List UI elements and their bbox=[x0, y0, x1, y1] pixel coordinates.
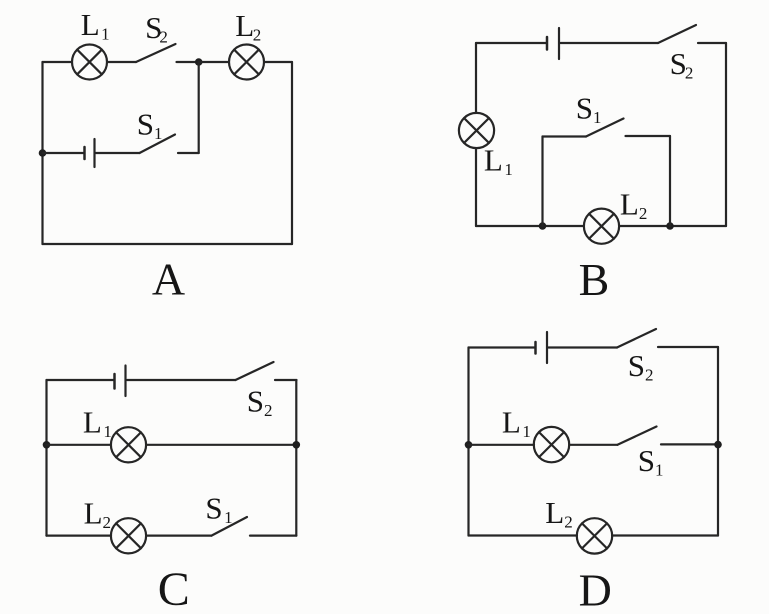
wire: A top rail right segment bbox=[264, 61, 292, 63]
wire: A top rail left segment bbox=[43, 61, 73, 63]
wire: D top rail, battery to S2 bbox=[549, 346, 618, 348]
battery (circuit D) long plate bbox=[546, 332, 548, 363]
battery (circuit A) long plate bbox=[93, 139, 95, 167]
lamp L1 (circuit B) bbox=[459, 113, 494, 148]
switch S2 (circuit D) fixed contact bbox=[658, 346, 718, 348]
wire: D bottom rail left segment bbox=[469, 534, 578, 536]
node: C middle rail left dot bbox=[43, 441, 51, 449]
svg-text:S2: S2 bbox=[670, 46, 694, 83]
node: A top junction dot bbox=[195, 58, 203, 66]
svg-text:B: B bbox=[579, 254, 610, 305]
switch S1 (circuit D) fixed contact bbox=[661, 443, 718, 445]
lamp L1 (circuit C) bbox=[111, 427, 146, 462]
switch S1 (circuit B) fixed contact bbox=[626, 135, 671, 137]
switch S2 (circuit D) lever bbox=[617, 329, 656, 348]
node: B bottom right junction dot bbox=[666, 222, 674, 230]
svg-text:L2: L2 bbox=[84, 496, 111, 533]
svg-text:L1: L1 bbox=[83, 405, 112, 442]
wire: B top rail left segment bbox=[476, 42, 546, 44]
lamp L1 (circuit D) bbox=[534, 427, 569, 462]
wire: C bottom rail left segment bbox=[47, 534, 112, 536]
wire: A middle branch, battery to S1 bbox=[96, 152, 140, 154]
wire: A middle branch, node to battery bbox=[43, 152, 84, 154]
svg-text:L1: L1 bbox=[502, 405, 531, 442]
wire: C left vertical bbox=[45, 380, 47, 536]
wire: B bottom rail right segment bbox=[619, 225, 726, 227]
wire: C top rail, battery to S2 bbox=[127, 379, 236, 381]
wire: C right vertical bbox=[295, 380, 297, 536]
wire: B inner branch left vertical bbox=[541, 137, 543, 227]
switch S2 (circuit C) lever bbox=[236, 362, 274, 380]
wire: D bottom rail right segment bbox=[612, 534, 718, 536]
wire: A vertical from S1 up to junction bbox=[198, 62, 200, 153]
lamp L2 (circuit A) bbox=[229, 45, 264, 80]
svg-text:L1: L1 bbox=[484, 143, 513, 180]
wire: B inner branch top segment bbox=[543, 135, 587, 137]
wire: B inner branch right vertical bbox=[669, 136, 671, 226]
switch S2 (circuit C) fixed contact bbox=[275, 379, 297, 381]
svg-text:L1: L1 bbox=[81, 7, 110, 44]
switch S1 (circuit D) lever bbox=[618, 427, 657, 445]
switch S1 (circuit B) lever bbox=[586, 119, 624, 137]
lamp L2 (circuit D) bbox=[577, 518, 612, 553]
wire: D middle rail left segment bbox=[469, 444, 535, 446]
wire: A top rail, junction to L2 bbox=[199, 61, 229, 63]
switch S2 (circuit B) fixed contact bbox=[698, 42, 726, 44]
battery (circuit C) short plate bbox=[113, 374, 116, 389]
wire: A right vertical bbox=[291, 62, 293, 244]
battery (circuit B) long plate bbox=[558, 28, 560, 59]
svg-text:S2: S2 bbox=[145, 10, 168, 47]
wire: B bottom rail left segment bbox=[476, 225, 584, 227]
svg-text:L2: L2 bbox=[545, 495, 572, 532]
node: D middle rail left dot bbox=[465, 441, 473, 449]
switch S1 (circuit C) fixed contact bbox=[250, 534, 296, 536]
svg-text:C: C bbox=[158, 563, 190, 614]
svg-text:S1: S1 bbox=[576, 90, 602, 127]
svg-text:S1: S1 bbox=[638, 443, 664, 480]
wire: B right vertical bbox=[725, 43, 727, 226]
switch S2 (circuit B) lever bbox=[658, 25, 696, 43]
svg-text:S2: S2 bbox=[247, 383, 273, 420]
wire: B left vertical lower bbox=[475, 148, 477, 226]
wire: A top rail, L1 to S2 bbox=[107, 61, 136, 63]
battery (circuit A) short plate bbox=[83, 147, 86, 159]
battery (circuit D) short plate bbox=[534, 342, 537, 354]
wire: D top rail left segment bbox=[469, 346, 535, 348]
lamp L1 (circuit A) bbox=[72, 45, 107, 80]
switch S1 (circuit A) fixed contact bbox=[178, 152, 199, 154]
battery (circuit B) short plate bbox=[546, 37, 549, 50]
node: B bottom left junction dot bbox=[539, 222, 547, 230]
wire: D middle rail, L1 to S1 bbox=[569, 444, 617, 446]
svg-text:S1: S1 bbox=[205, 490, 232, 527]
svg-text:L2: L2 bbox=[620, 187, 647, 224]
wire: C middle rail right segment bbox=[146, 444, 296, 446]
wire: D right vertical bbox=[717, 347, 719, 536]
switch S2 (circuit A) lever bbox=[136, 44, 176, 62]
wire: C top rail left segment bbox=[47, 379, 114, 381]
wire: D left vertical bbox=[467, 348, 469, 536]
svg-text:A: A bbox=[152, 254, 185, 305]
wire: C bottom rail, L2 to S1 bbox=[146, 534, 211, 536]
svg-text:D: D bbox=[579, 564, 612, 614]
switch S2 (circuit A) fixed contact bbox=[177, 61, 199, 63]
lamp L2 (circuit C) bbox=[111, 518, 146, 553]
lamp L2 (circuit B) bbox=[584, 209, 619, 244]
switch S1 (circuit C) lever bbox=[212, 517, 248, 536]
wire: B top rail, battery to S2 bbox=[561, 42, 659, 44]
svg-text:L2: L2 bbox=[235, 8, 261, 45]
battery (circuit C) long plate bbox=[124, 366, 126, 397]
node: D middle rail right dot bbox=[714, 441, 722, 449]
wire: B left vertical upper bbox=[475, 43, 477, 113]
wire: A left vertical bbox=[41, 62, 43, 244]
wire: A bottom rail bbox=[43, 243, 293, 245]
node: C middle rail right dot bbox=[293, 441, 301, 449]
node: A left branch dot bbox=[39, 149, 47, 157]
switch S1 (circuit A) lever bbox=[140, 135, 176, 154]
svg-text:S2: S2 bbox=[628, 348, 654, 385]
svg-text:S1: S1 bbox=[137, 107, 163, 144]
wire: C middle rail left segment bbox=[47, 444, 112, 446]
